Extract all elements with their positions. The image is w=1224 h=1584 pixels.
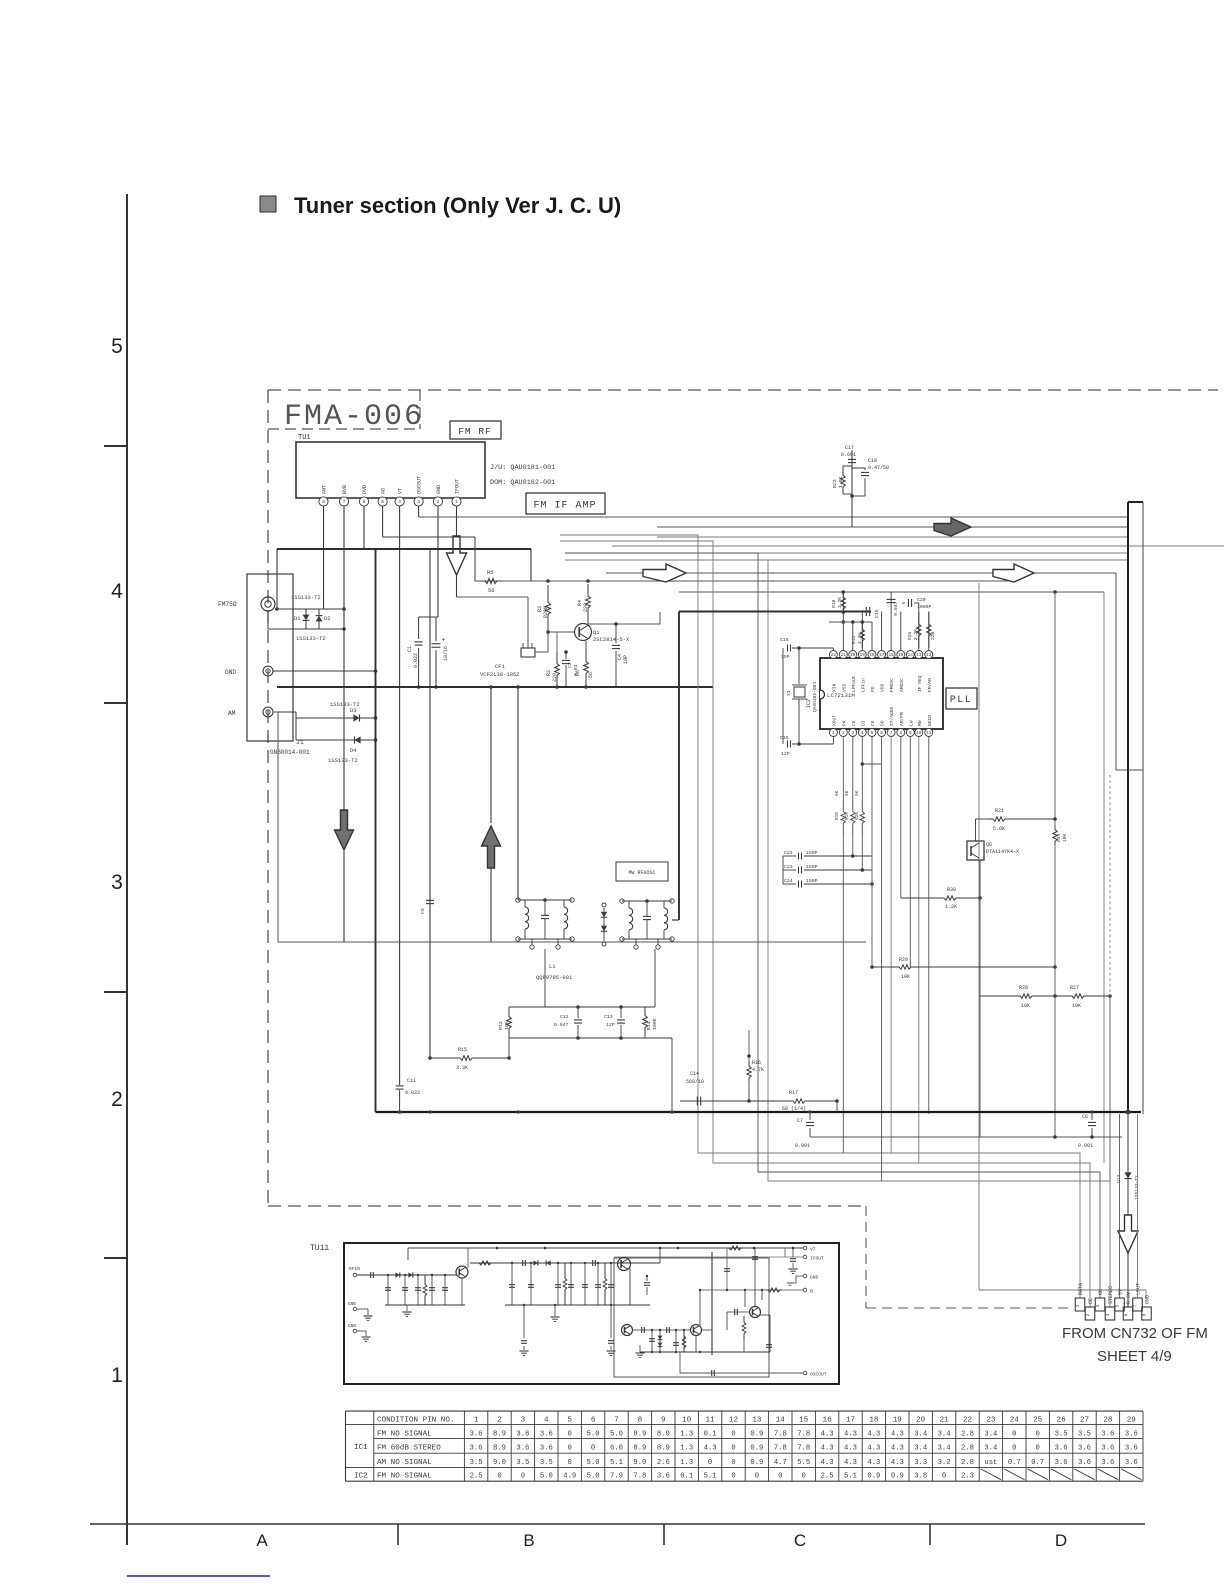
svg-text:7.8: 7.8 [633,1473,646,1481]
svg-text:3.5: 3.5 [1055,1430,1068,1438]
svg-text:3: 3 [851,731,854,736]
svg-text:0: 0 [802,1473,806,1481]
svg-text:5.6K: 5.6K [993,826,1005,832]
svg-text:8: 8 [322,499,325,505]
svg-text:6: 6 [880,731,883,736]
svg-text:6.0: 6.0 [610,1444,623,1452]
svg-text:R27: R27 [1070,985,1079,991]
svg-text:CK: CK [1098,1289,1104,1295]
svg-text:3.6: 3.6 [1055,1459,1068,1467]
svg-text:1SS133-T2: 1SS133-T2 [296,635,326,642]
svg-text:4.3: 4.3 [867,1444,880,1452]
svg-text:1.3: 1.3 [680,1459,693,1467]
svg-text:LPFout: LPFout [851,675,857,692]
svg-text:BOIN: BOIN [927,715,933,726]
svg-text:CF1: CF1 [495,663,506,670]
svg-text:B: B [810,1289,813,1295]
svg-text:21: 21 [940,1417,950,1425]
svg-text:4.7: 4.7 [774,1459,787,1467]
svg-text:FM/AM: FM/AM [927,678,933,692]
svg-text:8.9: 8.9 [493,1430,506,1438]
svg-text:0.7: 0.7 [1008,1459,1021,1467]
svg-text:0: 0 [591,1444,595,1452]
svg-text:7.8: 7.8 [774,1430,787,1438]
svg-text:A: A [256,1531,268,1550]
svg-text:10K: 10K [1062,833,1068,842]
svg-text:D1: D1 [294,615,301,622]
svg-text:5: 5 [567,1417,572,1425]
svg-text:GND: GND [1145,1295,1151,1304]
svg-text:220: 220 [930,631,936,640]
svg-text:16: 16 [823,1417,833,1425]
svg-text:MW: MW [917,720,923,726]
svg-text:VDD: VDD [880,683,886,692]
svg-text:C18: C18 [868,458,877,464]
svg-text:3.6: 3.6 [540,1430,553,1438]
svg-text:GNB0014-001: GNB0014-001 [270,749,310,756]
svg-text:XIN: XIN [831,683,837,692]
svg-text:20: 20 [850,653,856,658]
svg-text:3.6: 3.6 [1078,1459,1091,1467]
svg-text:15: 15 [898,653,904,658]
svg-text:8.9: 8.9 [633,1430,646,1438]
svg-text:0: 0 [521,1473,525,1481]
svg-text:GND: GND [810,1275,819,1281]
svg-text:R18: R18 [835,812,840,820]
svg-text:10: 10 [916,731,922,736]
svg-text:AMOSC: AMOSC [899,678,905,692]
svg-text:8.9: 8.9 [633,1444,646,1452]
svg-text:7: 7 [343,499,346,505]
svg-text:5.1: 5.1 [704,1473,717,1481]
svg-text:1.8K: 1.8K [838,476,844,488]
svg-text:15P: 15P [781,654,790,660]
svg-text:FMA-006: FMA-006 [284,400,424,434]
svg-text:3.6: 3.6 [470,1444,483,1452]
svg-text:5.0: 5.0 [610,1430,623,1438]
svg-text:OSCOUT: OSCOUT [810,1372,827,1378]
svg-text:0: 0 [568,1430,572,1438]
svg-text:SHEET 4/9: SHEET 4/9 [1097,1348,1172,1365]
svg-text:AM: AM [228,710,236,717]
svg-text:3.2: 3.2 [938,1459,951,1467]
svg-text:3.3K: 3.3K [456,1065,468,1071]
svg-text:150P: 150P [806,850,818,856]
svg-text:7: 7 [614,1417,619,1425]
svg-text:3.4: 3.4 [938,1430,951,1438]
svg-text:3.3: 3.3 [914,1459,927,1467]
svg-text:2.8: 2.8 [961,1444,974,1452]
svg-text:L1: L1 [549,963,556,970]
svg-text:11: 11 [706,1417,716,1425]
svg-text:CE: CE [1088,1298,1094,1304]
svg-text:10: 10 [682,1417,692,1425]
svg-text:3: 3 [417,499,420,505]
svg-text:12P: 12P [606,1022,615,1028]
svg-text:R19: R19 [845,812,850,820]
svg-text:18: 18 [869,653,875,658]
svg-text:FM 60dB STEREO: FM 60dB STEREO [377,1444,441,1452]
svg-text:3.5: 3.5 [1078,1430,1091,1438]
svg-text:3.5: 3.5 [516,1459,529,1467]
svg-text:2SC2814-5-X: 2SC2814-5-X [593,636,630,643]
svg-text:0: 0 [1012,1444,1016,1452]
svg-text:4.3: 4.3 [844,1459,857,1467]
svg-text:0.47/50: 0.47/50 [868,465,889,471]
svg-text:2: 2 [111,1088,123,1111]
svg-text:0.001: 0.001 [795,1143,810,1149]
svg-text:DI: DI [860,720,866,726]
svg-text:C20: C20 [917,597,926,603]
svg-text:IFOUT: IFOUT [455,479,461,494]
svg-text:3: 3 [111,871,123,894]
svg-text:C2: C2 [567,662,573,668]
svg-text:2.5: 2.5 [821,1473,834,1481]
svg-text:9.0: 9.0 [493,1459,506,1467]
svg-text:J/U: QAU0181-001: J/U: QAU0181-001 [490,464,555,472]
svg-text:5.0: 5.0 [587,1430,600,1438]
svg-text:68 (1/4): 68 (1/4) [782,1106,806,1112]
svg-text:8.9: 8.9 [493,1444,506,1452]
svg-text:0.9: 0.9 [867,1473,880,1481]
svg-text:0.1: 0.1 [704,1430,717,1438]
svg-text:7.8: 7.8 [797,1430,810,1438]
svg-text:XOUT: XOUT [831,715,837,726]
svg-text:4.3: 4.3 [867,1430,880,1438]
svg-text:5.5: 5.5 [797,1459,810,1467]
svg-text:7.8: 7.8 [774,1444,787,1452]
svg-text:0: 0 [1036,1430,1040,1438]
svg-text:1SS133-T2: 1SS133-T2 [291,594,321,601]
svg-text:0.001: 0.001 [1078,1143,1093,1149]
svg-text:2.2K: 2.2K [913,629,919,640]
svg-text:14: 14 [776,1417,786,1425]
svg-text:56: 56 [588,672,594,678]
svg-text:26: 26 [1057,1417,1067,1425]
svg-text:DTA114YK4-X: DTA114YK4-X [986,849,1019,855]
svg-text:6: 6 [363,499,366,505]
svg-text:4: 4 [861,731,864,736]
svg-text:3.6: 3.6 [1078,1444,1091,1452]
svg-text:QQR0795-001: QQR0795-001 [536,974,573,981]
svg-text:2.8: 2.8 [961,1459,974,1467]
svg-text:MW RF&OSC: MW RF&OSC [628,870,655,876]
svg-text:B: B [523,1531,534,1550]
svg-text:16: 16 [888,653,894,658]
svg-text:STEREO: STEREO [1108,1286,1114,1304]
svg-text:0.022: 0.022 [413,653,419,668]
svg-text:9: 9 [909,731,912,736]
svg-text:5.0: 5.0 [540,1473,553,1481]
svg-text:1.3: 1.3 [680,1430,693,1438]
svg-text:GND: GND [348,1301,356,1307]
svg-text:220: 220 [583,603,589,612]
svg-text:0: 0 [755,1473,759,1481]
svg-text:29: 29 [1127,1417,1137,1425]
svg-text:2.5: 2.5 [470,1473,483,1481]
svg-text:0: 0 [942,1473,946,1481]
svg-text:5.1: 5.1 [610,1459,623,1467]
svg-text:FM IF AMP: FM IF AMP [533,501,596,512]
svg-text:6: 6 [591,1417,596,1425]
svg-text:150P: 150P [806,878,818,884]
svg-text:15: 15 [799,1417,809,1425]
svg-text:DO: DO [880,720,886,726]
svg-text:11: 11 [926,731,932,736]
svg-text:CK: CK [870,720,876,726]
svg-text:220: 220 [552,673,558,682]
svg-text:25: 25 [1033,1417,1043,1425]
svg-text:0.047: 0.047 [554,1022,569,1028]
svg-text:3.4: 3.4 [984,1430,997,1438]
svg-text:3.4: 3.4 [914,1444,927,1452]
svg-text:6.1: 6.1 [680,1473,693,1481]
svg-text:3.4: 3.4 [914,1430,927,1438]
svg-text:IC2: IC2 [806,699,812,708]
svg-text:Tuner section (Only Ver J. C.: Tuner section (Only Ver J. C. U) [294,193,621,218]
svg-text:R16: R16 [752,1060,761,1066]
svg-text:10K: 10K [901,974,910,980]
svg-text:1: 1 [455,499,458,505]
svg-text:10K: 10K [1021,1003,1030,1009]
svg-text:ANT: ANT [322,485,328,494]
svg-text:X1: X1 [786,690,792,696]
svg-text:+: + [442,637,446,644]
svg-text:R11: R11 [851,635,857,644]
svg-text:C23: C23 [784,864,793,870]
svg-text:2.8: 2.8 [961,1430,974,1438]
svg-text:GND: GND [348,1323,356,1329]
svg-text:R21: R21 [995,808,1004,814]
svg-text:5K: 5K [845,790,850,796]
svg-text:D3: D3 [350,707,357,714]
svg-text:10K: 10K [504,1021,510,1030]
svg-text:4.3: 4.3 [821,1459,834,1467]
svg-text:3.6: 3.6 [1101,1430,1114,1438]
svg-text:10K: 10K [1072,1003,1081,1009]
svg-text:AM NO SIGNAL: AM NO SIGNAL [377,1459,432,1467]
svg-text:RFIN: RFIN [349,1266,360,1272]
svg-text:4.3: 4.3 [704,1444,717,1452]
svg-text:IFOUT: IFOUT [810,1256,824,1262]
svg-text:2.2K: 2.2K [837,597,843,608]
svg-text:R20: R20 [855,812,860,820]
svg-text:13: 13 [752,1417,762,1425]
svg-text:5.0: 5.0 [587,1473,600,1481]
svg-text:5.0: 5.0 [587,1459,600,1467]
svg-text:1: 1 [474,1417,479,1425]
svg-text:IF REQ: IF REQ [917,675,923,692]
svg-text:2: 2 [437,499,440,505]
svg-text:0: 0 [497,1473,501,1481]
svg-text:GND: GND [436,485,442,494]
svg-text:0.9: 0.9 [891,1473,904,1481]
svg-text:12P: 12P [781,751,790,757]
svg-text:D4: D4 [350,747,357,754]
svg-text:3.4: 3.4 [938,1444,951,1452]
svg-text:560/10: 560/10 [686,1079,704,1085]
svg-text:21: 21 [841,653,847,658]
svg-text:23: 23 [986,1417,996,1425]
svg-text:C22: C22 [784,850,793,856]
svg-text:0: 0 [731,1459,735,1467]
svg-text:19: 19 [860,653,866,658]
svg-text:4.3: 4.3 [844,1430,857,1438]
svg-text:FROM CN732 OF FM: FROM CN732 OF FM [1062,1325,1208,1342]
svg-text:LC72131M: LC72131M [827,692,855,699]
svg-text:R6: R6 [575,670,581,676]
svg-text:17: 17 [879,653,885,658]
svg-text:C16: C16 [780,735,789,741]
svg-text:0: 0 [778,1473,782,1481]
svg-text:LPFin: LPFin [860,678,866,692]
svg-text:9: 9 [661,1417,666,1425]
svg-text:24: 24 [1010,1417,1020,1425]
svg-text:0: 0 [568,1444,572,1452]
svg-text:5: 5 [871,731,874,736]
svg-text:4.7K: 4.7K [857,633,863,644]
svg-text:Q1: Q1 [593,629,600,636]
svg-text:3.6: 3.6 [470,1430,483,1438]
svg-text:3.5: 3.5 [470,1459,483,1467]
svg-text:C15: C15 [780,637,789,643]
svg-text:C6: C6 [1082,1114,1088,1120]
svg-text:R14: R14 [646,1021,652,1030]
svg-text:C24: C24 [784,878,793,884]
svg-text:8.9: 8.9 [657,1430,670,1438]
svg-text:3.6: 3.6 [516,1430,529,1438]
svg-text:R17: R17 [789,1090,798,1096]
svg-text:3.4: 3.4 [984,1444,997,1452]
svg-text:C7: C7 [797,1118,803,1124]
svg-text:2.3: 2.3 [961,1473,974,1481]
svg-text:R15: R15 [458,1047,467,1053]
svg-text:0: 0 [731,1444,735,1452]
svg-text:FM NO SIGNAL: FM NO SIGNAL [377,1430,432,1438]
svg-text:TU11: TU11 [310,1244,329,1253]
svg-text:D: D [1055,1531,1067,1550]
svg-text:R23: R23 [832,479,838,488]
svg-text:56: 56 [488,587,495,594]
svg-text:13: 13 [916,653,922,658]
svg-text:1: 1 [111,1364,123,1387]
svg-text:1.3: 1.3 [680,1444,693,1452]
svg-text:3.6: 3.6 [1055,1444,1068,1452]
svg-text:D2: D2 [324,615,331,622]
svg-text:R10: R10 [831,599,837,608]
svg-text:VSS: VSS [841,683,847,692]
svg-text:CE: CE [851,720,857,726]
svg-text:1SS133-T2: 1SS133-T2 [1134,1175,1140,1200]
svg-text:0.047: 0.047 [893,601,899,616]
svg-text:AG: AG [381,488,387,494]
svg-text:3.6: 3.6 [516,1444,529,1452]
svg-text:ust: ust [984,1459,997,1467]
svg-text:TU1: TU1 [298,434,311,442]
svg-text:22: 22 [963,1417,973,1425]
svg-text:8.9: 8.9 [657,1444,670,1452]
svg-text:6.6V: 6.6V [1126,1292,1132,1304]
svg-text:IC1: IC1 [354,1444,368,1452]
svg-text:3: 3 [521,1417,526,1425]
svg-text:17: 17 [846,1417,855,1425]
svg-text:4.3: 4.3 [867,1459,880,1467]
svg-text:LW: LW [908,720,914,726]
svg-text:0: 0 [731,1430,735,1438]
svg-text:C1: C1 [407,646,413,652]
svg-text:C12: C12 [560,1014,569,1020]
svg-text:DVD: DVD [362,485,368,494]
svg-text:4.3: 4.3 [821,1444,834,1452]
svg-text:PD: PD [870,686,876,692]
svg-text:R25: R25 [907,631,913,640]
svg-text:C: C [794,1531,806,1550]
svg-text:5V: 5V [1118,1289,1124,1295]
svg-text:0.7: 0.7 [1031,1459,1044,1467]
svg-text:PK: PK [841,720,847,726]
svg-text:C9: C9 [420,908,426,914]
svg-text:1: 1 [832,731,835,736]
svg-text:4.3: 4.3 [844,1444,857,1452]
svg-text:3.6: 3.6 [540,1444,553,1452]
svg-text:C13: C13 [604,1014,613,1020]
svg-text:0: 0 [708,1459,712,1467]
svg-text:27: 27 [1080,1417,1089,1425]
svg-text:9.0: 9.0 [633,1459,646,1467]
svg-text:100K: 100K [652,1018,658,1030]
svg-text:5.1: 5.1 [844,1473,857,1481]
svg-text:VCF2L38-105Z: VCF2L38-105Z [480,671,520,678]
svg-text:3.6: 3.6 [1101,1459,1114,1467]
svg-text:AM/FM: AM/FM [899,712,905,726]
svg-text:0.9: 0.9 [750,1459,763,1467]
svg-text:3.5: 3.5 [540,1459,553,1467]
svg-text:4: 4 [111,580,123,603]
svg-text:C11: C11 [407,1078,416,1084]
svg-text:10/16: 10/16 [443,646,449,661]
svg-text:0: 0 [1036,1444,1040,1452]
svg-text:12: 12 [926,653,932,658]
svg-text:10P: 10P [623,655,629,664]
svg-text:4.3: 4.3 [821,1430,834,1438]
svg-text:0: 0 [568,1459,572,1467]
svg-text:5: 5 [381,499,384,505]
svg-text:0.001: 0.001 [841,452,856,458]
svg-text:R24: R24 [1056,833,1062,842]
svg-text:3.6: 3.6 [1125,1430,1138,1438]
svg-text:FM NO SIGNAL: FM NO SIGNAL [377,1473,432,1481]
svg-text:5K: 5K [835,790,840,796]
svg-text:12: 12 [729,1417,739,1425]
svg-text:1SS133-T2: 1SS133-T2 [328,757,358,764]
svg-text:2.6: 2.6 [657,1459,670,1467]
svg-text:4.7K: 4.7K [752,1067,764,1073]
svg-text:2: 2 [497,1417,502,1425]
svg-text:28: 28 [1103,1417,1113,1425]
svg-text:3.6: 3.6 [1125,1444,1138,1452]
svg-text:Q6: Q6 [986,842,992,848]
svg-text:4: 4 [398,499,401,505]
svg-text:0: 0 [1012,1430,1016,1438]
svg-text:7: 7 [890,731,893,736]
svg-text:FM RF: FM RF [458,426,492,437]
svg-text:R5: R5 [487,569,494,576]
svg-text:OSCOUT: OSCOUT [417,476,423,494]
svg-text:19: 19 [893,1417,903,1425]
svg-text:4.3: 4.3 [891,1430,904,1438]
svg-text:3.6: 3.6 [1125,1459,1138,1467]
svg-text:C17: C17 [845,445,854,451]
